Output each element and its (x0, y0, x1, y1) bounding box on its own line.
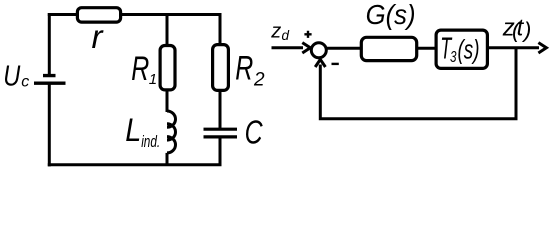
plus sign (304, 31, 311, 38)
output wire T3 to z(t) arrow (489, 46, 539, 49)
svg-text:C: C (245, 113, 264, 150)
wire right branch between R2 and capacitor (219, 92, 222, 129)
wire bottom rail (48, 163, 222, 166)
wire middle branch upper (166, 13, 169, 45)
wire middle branch between R1 and inductor (166, 92, 169, 113)
svg-text:ind.: ind. (141, 132, 160, 151)
feedback wire: down, left, up into summer (320, 48, 516, 119)
label L_ind. (125, 112, 160, 151)
wire G(s) to T3(s) (418, 47, 437, 50)
svg-text:L: L (125, 112, 141, 148)
resistor R2 body (213, 45, 229, 91)
svg-text:(s): (s) (458, 35, 480, 65)
input arrow z_d to summer (272, 46, 304, 49)
wire left vertical bottom (source to bottom rail) (48, 84, 51, 166)
battery source plates (34, 76, 66, 84)
label R_1 (131, 50, 157, 88)
wire summer to G(s) (327, 47, 362, 50)
wire middle branch lower (166, 153, 169, 166)
block T3(s) (436, 30, 487, 68)
block G(s) (361, 37, 416, 60)
feedback arrowhead into summer (315, 59, 325, 67)
svg-text:R: R (235, 50, 253, 88)
inductor L_ind. coil (167, 111, 176, 153)
wire right branch lower (219, 139, 222, 167)
svg-text:d: d (282, 28, 290, 43)
svg-text:3: 3 (450, 49, 457, 66)
label z_d (270, 21, 289, 44)
wire left vertical top (source to top rail) (48, 13, 51, 74)
svg-text:2: 2 (253, 69, 265, 90)
svg-text:z: z (270, 21, 281, 43)
label U_c (3, 60, 29, 92)
svg-text:R: R (131, 50, 149, 88)
wire top rail (48, 13, 222, 16)
resistor r body (77, 8, 120, 22)
label T_3(s) (440, 31, 479, 66)
label z(t) (502, 14, 532, 42)
svg-text:G(s): G(s) (366, 0, 416, 30)
resistor R1 body (160, 46, 175, 90)
svg-text:U: U (3, 60, 21, 92)
label R_2 (235, 50, 265, 91)
svg-text:1: 1 (149, 71, 157, 88)
summing junction circle (311, 43, 326, 58)
svg-text:c: c (21, 74, 29, 91)
capacitor C plates (204, 129, 238, 137)
minus sign (332, 63, 339, 65)
wire right branch upper (219, 13, 222, 44)
